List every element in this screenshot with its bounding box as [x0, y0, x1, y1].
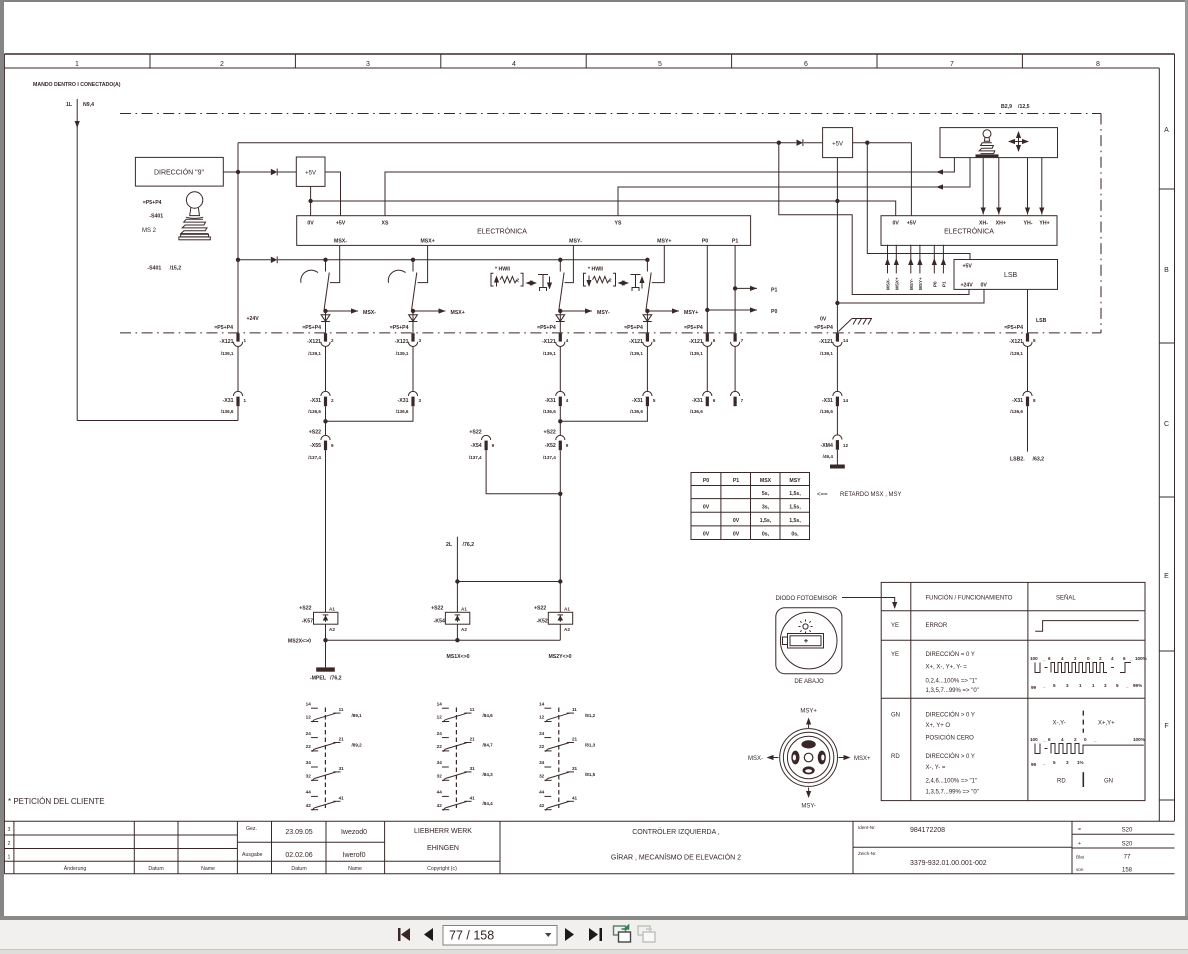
svg-text:12: 12: [306, 715, 312, 720]
pin labels top of left electronica: [307, 221, 622, 227]
wire X31-8 LSB2 out: [1010, 406, 1044, 462]
wire 1L direction arrow: [75, 121, 80, 128]
svg-text:MSY: MSY: [789, 478, 801, 484]
diode on MSY- to X121: [556, 311, 565, 333]
relay coil K57: [299, 606, 338, 633]
wire diode to right +5V box: [804, 142, 823, 144]
svg-text:-X31: -X31: [310, 398, 321, 404]
connector X121 pin 6: [684, 325, 716, 356]
svg-text:9: 9: [331, 443, 334, 448]
ruler column ticks: [150, 54, 1022, 68]
svg-text:34: 34: [306, 760, 312, 765]
svg-text:6: 6: [713, 338, 716, 343]
wire 0V rail long to right electronics: [311, 201, 896, 216]
svg-text:A2: A2: [461, 627, 467, 632]
wire P0 down from electronica: [706, 245, 708, 333]
svg-text:=P5+P4: =P5+P4: [143, 200, 162, 206]
svg-text:1,5s,: 1,5s,: [760, 518, 772, 524]
toolbar page combo box: [443, 926, 557, 946]
dash-dot boundary top: [120, 113, 1101, 115]
svg-text:=P5+P4: =P5+P4: [390, 325, 409, 331]
funcion/senal header: [926, 595, 1077, 602]
svg-text:Name: Name: [348, 866, 362, 872]
svg-text:YH-: YH-: [1024, 221, 1033, 227]
connector X31 pin 7: [731, 391, 744, 406]
connector X54 pin 9: [469, 430, 495, 461]
svg-text:-X121: -X121: [220, 339, 234, 345]
connector pad south: [803, 766, 815, 774]
title block sheet table labels: [1076, 827, 1085, 872]
contact K54 24-21-22: [437, 731, 493, 752]
svg-text:7: 7: [741, 398, 744, 403]
svg-text:Änderung: Änderung: [64, 865, 87, 872]
title block outer and row lines: [4, 821, 1174, 874]
svg-text:984172208: 984172208: [910, 827, 945, 834]
svg-text:1,5s,: 1,5s,: [789, 491, 801, 497]
svg-text:0: 0: [1084, 737, 1087, 742]
svg-text:CONTRÓLER IZQUIERDA ,: CONTRÓLER IZQUIERDA ,: [632, 827, 720, 836]
node 0V rail junction: [835, 199, 839, 203]
row letters A B C E F: [1164, 127, 1169, 730]
wire top feed y142.7: [238, 142, 796, 144]
svg-text:A2: A2: [329, 627, 335, 632]
svg-text:A1: A1: [564, 607, 570, 612]
svg-text:/76,2: /76,2: [330, 676, 342, 682]
svg-text:XS: XS: [382, 221, 389, 227]
wire YS up-over to right: [618, 158, 970, 216]
svg-text:/49,4: /49,4: [823, 454, 834, 459]
svg-text:XH+: XH+: [996, 221, 1006, 227]
svg-text:100%: 100%: [1135, 656, 1147, 661]
svg-text:21: 21: [572, 737, 578, 742]
row GN text: [891, 712, 975, 742]
svg-text:_: _: [1129, 656, 1133, 661]
arrow MSY- signal: [560, 308, 610, 316]
sheet frame left border: [3, 54, 5, 874]
svg-text:2: 2: [331, 338, 334, 343]
arrow P1 signal: [735, 286, 777, 294]
right row-letter strip lines: [1159, 54, 1174, 821]
svg-text:ELECTRÓNICA: ELECTRÓNICA: [477, 227, 527, 236]
toolbar last page button: [589, 928, 602, 941]
arrow on YS wire: [936, 184, 943, 189]
svg-text:2: 2: [1074, 737, 1077, 742]
diode V3 before right +5V box: [797, 139, 803, 146]
toolbar next view icon (disabled): [638, 926, 655, 942]
wire K57 A2 to rail: [325, 624, 327, 640]
svg-text:+: +: [1078, 841, 1081, 847]
svg-text:6: 6: [1048, 656, 1051, 661]
contact link line K54: [455, 708, 457, 809]
svg-text:12: 12: [437, 715, 443, 720]
ground 0V chassis at X121-14: [820, 317, 872, 332]
svg-text:0V: 0V: [733, 532, 740, 538]
diode V2 on switch rail: [271, 256, 277, 263]
svg-text:100: 100: [1030, 656, 1038, 661]
switch S-MSY-: [559, 245, 574, 310]
contact link line K52: [558, 708, 560, 809]
contact K57 24-21-22: [306, 731, 362, 752]
svg-text:X-,Y-: X-,Y-: [1053, 721, 1066, 727]
label diodo fotoemisor with pointer: [776, 596, 898, 609]
svg-text:Ausgabe: Ausgabe: [242, 852, 263, 858]
svg-text:Ident-Nr.: Ident-Nr.: [858, 825, 876, 830]
svg-text:MSY+: MSY+: [800, 709, 817, 715]
svg-text:41: 41: [572, 795, 578, 800]
node MSX+ out: [411, 309, 415, 313]
node rail-MSY+: [645, 258, 649, 262]
connector X31 pin 6: [690, 391, 716, 414]
connector pad west: [791, 751, 799, 765]
node X54/X52 tie: [558, 492, 562, 496]
svg-text:/139,1: /139,1: [630, 351, 643, 356]
connector pad east: [818, 751, 826, 765]
svg-text:DE ABAJO: DE ABAJO: [794, 679, 824, 685]
svg-text:DIRECCIÓN = 0 Y: DIRECCIÓN = 0 Y: [926, 651, 975, 658]
wire X31-14 to XM4: [836, 406, 838, 434]
svg-text:_: _: [1042, 737, 1046, 742]
svg-text:4: 4: [1061, 737, 1064, 742]
connector X31 pin 5: [630, 391, 656, 414]
svg-text:99: 99: [1031, 762, 1037, 767]
svg-text:Iwezod0: Iwezod0: [341, 829, 367, 836]
svg-text:Zeich-Nr.: Zeich-Nr.: [858, 851, 877, 856]
svg-text:5: 5: [653, 338, 656, 343]
wire X121-14 to X31-14: [836, 346, 838, 391]
node P1 branch: [733, 286, 737, 290]
svg-text:ERROR: ERROR: [926, 623, 948, 629]
wire X31-1 down to corner: [237, 406, 239, 420]
svg-text:A1: A1: [329, 607, 335, 612]
svg-text:N9,4: N9,4: [83, 102, 94, 108]
contact K54 14-11-12: [437, 701, 493, 722]
svg-text:_: _: [1042, 760, 1046, 765]
relay coil K54: [431, 606, 470, 633]
svg-text:-X31: -X31: [692, 398, 703, 404]
svg-text:34: 34: [437, 760, 443, 765]
svg-text:4: 4: [566, 338, 569, 343]
svg-text:/76,2: /76,2: [463, 542, 475, 548]
connector X31 pin 8: [1010, 391, 1036, 414]
svg-text:-X121: -X121: [819, 339, 833, 345]
arrow MSX+ signal: [413, 308, 465, 316]
svg-text:Copyright (c): Copyright (c): [427, 866, 457, 872]
svg-text:/137,4: /137,4: [469, 455, 482, 460]
svg-text:MSX+: MSX+: [894, 277, 899, 290]
svg-text:5: 5: [1116, 683, 1119, 688]
svg-text:22: 22: [437, 744, 443, 749]
svg-text:DIRECCIÓN > 0 Y: DIRECCIÓN > 0 Y: [926, 712, 975, 719]
svg-text:P0: P0: [771, 309, 777, 315]
svg-text:-MPEL: -MPEL: [310, 676, 327, 682]
svg-text:02.02.06: 02.02.06: [285, 852, 312, 859]
svg-text:11: 11: [339, 707, 344, 712]
wire YH+ arrow: [1039, 158, 1044, 215]
title block company name: [414, 828, 472, 852]
node 0V junction at +5V box: [308, 199, 312, 203]
svg-text:24: 24: [437, 731, 443, 736]
svg-text:42: 42: [306, 803, 312, 808]
svg-text:MSX+: MSX+: [451, 310, 465, 316]
svg-text:/84,6: /84,6: [483, 713, 494, 718]
contact K52 34-31-32: [539, 760, 596, 781]
table retardo grid: [691, 473, 810, 540]
svg-text:_: _: [1125, 683, 1129, 688]
svg-text:11: 11: [470, 707, 475, 712]
svg-text:9: 9: [566, 443, 569, 448]
svg-text:MANDO DENTRO I CONECTADO(A): MANDO DENTRO I CONECTADO(A): [33, 82, 121, 88]
svg-text:2: 2: [1099, 656, 1102, 661]
svg-text:9: 9: [492, 443, 495, 448]
svg-text:=P5+P4: =P5+P4: [814, 325, 833, 331]
svg-text:MSY-: MSY-: [909, 278, 914, 290]
svg-text:/136,6: /136,6: [308, 409, 321, 414]
svg-text:P1: P1: [733, 478, 739, 484]
contact K54 34-31-32: [437, 760, 493, 781]
wire XS up-over to right: [385, 158, 954, 216]
arrow MSY- south: [801, 788, 815, 810]
wire X31-4 + X31-5 tie: [560, 406, 647, 435]
svg-text:* HWII: * HWII: [588, 267, 604, 273]
wire X31-2 + X31-3 tie: [326, 406, 414, 435]
connector X121 pin 1: [214, 325, 246, 356]
wire K54 A2 to rail: [456, 624, 458, 640]
node MSY+ out: [645, 309, 649, 313]
svg-text:P1: P1: [941, 281, 946, 287]
wire XH- arrow into right electronica: [981, 158, 986, 215]
ruler band bottom line: [4, 67, 1159, 69]
switch S-MSX-: [301, 245, 340, 310]
svg-text:=P5+P4: =P5+P4: [624, 325, 643, 331]
wire XH+ arrow: [996, 158, 1001, 215]
svg-text:Gez.: Gez.: [246, 826, 257, 832]
signal gn/rd region labels: [1053, 711, 1116, 733]
svg-text:/81,5: /81,5: [585, 772, 596, 777]
svg-text:S20: S20: [1122, 828, 1133, 834]
svg-text:/81,2: /81,2: [585, 713, 596, 718]
svg-text:2: 2: [220, 61, 224, 68]
svg-text:MSY-: MSY-: [597, 310, 610, 316]
row RD text: [891, 753, 979, 796]
svg-text:P1: P1: [732, 239, 738, 245]
svg-text:B2,9: B2,9: [1001, 104, 1012, 110]
label -S401: [149, 214, 163, 220]
node 0V branch to LSB: [835, 301, 839, 305]
svg-text:/139,1: /139,1: [690, 351, 703, 356]
svg-text:21: 21: [470, 737, 476, 742]
contact K54 44-41-42: [437, 790, 493, 811]
svg-text:0,2,4...100% => "1": 0,2,4...100% => "1": [926, 678, 978, 684]
svg-text:Datum: Datum: [291, 866, 306, 872]
svg-text:+5V: +5V: [305, 171, 316, 177]
toolbar next page button: [565, 928, 574, 941]
svg-text:/136,6: /136,6: [1010, 409, 1023, 414]
svg-text:41: 41: [339, 795, 345, 800]
svg-text:POSICIÓN CERO: POSICIÓN CERO: [926, 734, 975, 741]
connector X121 pin 2: [302, 325, 334, 356]
double arrow 2: [618, 280, 630, 285]
svg-text:/89,1: /89,1: [352, 713, 363, 718]
node MSY- out: [558, 309, 562, 313]
svg-text:Iwerof0: Iwerof0: [343, 852, 366, 859]
arrow MSY+ signal: [647, 308, 698, 316]
node rail-MSX+: [411, 258, 415, 262]
title block drawing titles: [611, 827, 741, 862]
wire X121-2 to X31-2: [325, 346, 327, 391]
svg-text:/84,3: /84,3: [483, 772, 494, 777]
svg-text:LSB: LSB: [1004, 272, 1018, 279]
svg-text:11: 11: [572, 707, 577, 712]
svg-text:P0: P0: [932, 281, 937, 287]
svg-text:99: 99: [1031, 685, 1037, 690]
diode viewport circle: [780, 612, 837, 669]
connector X121 pin 7: [731, 333, 744, 346]
svg-text:/139,1: /139,1: [543, 351, 556, 356]
svg-text:/136,6: /136,6: [221, 409, 234, 414]
joystick MS2 symbol: [179, 192, 210, 240]
connector X31 pin 2: [308, 391, 334, 414]
box DIRECCION 9: [135, 157, 223, 186]
arrow MSY+ north: [800, 709, 817, 729]
svg-text:/136,6: /136,6: [630, 409, 643, 414]
arrow P0 signal: [707, 307, 777, 315]
signal gn/rd top labels: [1030, 737, 1145, 742]
svg-text:44: 44: [306, 790, 312, 795]
svg-text:7: 7: [741, 338, 744, 343]
svg-text:MS1X<>0: MS1X<>0: [446, 654, 469, 660]
plunger symbol 2 with up arrow: [631, 275, 645, 292]
HWII spring symbol 1: [491, 273, 523, 286]
svg-text:158: 158: [1122, 868, 1133, 874]
svg-text:42: 42: [539, 803, 545, 808]
svg-text:GÍRAR , MECANÍSMO DE ELEVACIÓN: GÍRAR , MECANÍSMO DE ELEVACIÓN 2: [611, 853, 741, 862]
svg-text:6: 6: [713, 398, 716, 403]
svg-text:+S22: +S22: [431, 606, 443, 612]
svg-text:RD: RD: [1057, 779, 1066, 785]
title block dates: [285, 829, 312, 859]
svg-text:=P5+P4: =P5+P4: [302, 325, 321, 331]
four-way arrow pictogram: [1008, 131, 1029, 152]
connector center hole: [804, 753, 813, 762]
svg-text:14: 14: [843, 338, 849, 343]
diode on MSX+ to X121: [409, 311, 418, 333]
svg-text:+S22: +S22: [534, 606, 546, 612]
relay coil K52: [534, 606, 573, 633]
svg-text:S20: S20: [1122, 842, 1133, 848]
svg-text:-XM4: -XM4: [820, 443, 833, 449]
svg-text:-X121: -X121: [689, 339, 703, 345]
connector X121 pin 8: [1004, 325, 1036, 356]
svg-text:<==: <==: [817, 492, 828, 498]
label de abajo: [794, 679, 824, 685]
double arrow 1: [526, 280, 538, 285]
LED sun symbol: [799, 620, 813, 634]
svg-text:24: 24: [539, 731, 545, 736]
table retardo row 2: [703, 505, 802, 511]
wire X121-4 to X31-4: [559, 346, 561, 391]
svg-text:0s,: 0s,: [762, 532, 770, 538]
svg-text:YE: YE: [891, 623, 899, 629]
svg-text:=P5+P4: =P5+P4: [1004, 325, 1023, 331]
node rail-MSX-: [323, 258, 327, 262]
svg-text:+S22: +S22: [309, 430, 321, 436]
wire 1L to X31 pin 1 bottom: [77, 420, 238, 422]
svg-text:1,5s,: 1,5s,: [789, 518, 801, 524]
label +24V: [247, 316, 260, 322]
svg-text:-S401: -S401: [147, 266, 161, 272]
title block column lines: [14, 821, 1072, 874]
svg-text:P1: P1: [771, 287, 777, 293]
node bus/switchrail junction: [236, 258, 240, 262]
svg-text:MSX-: MSX-: [886, 278, 891, 290]
wire X121-3 to X31-3: [412, 346, 414, 391]
row YE error: [891, 623, 948, 629]
label LSB net: [1036, 318, 1047, 324]
table retardo row 4: [703, 532, 799, 538]
svg-text:_: _: [1093, 737, 1097, 742]
svg-text:LSB: LSB: [1036, 318, 1047, 324]
box LSB: [954, 260, 1058, 290]
svg-text:MSY+: MSY+: [684, 310, 698, 316]
box ELECTRONICA right: [881, 216, 1057, 246]
node MSX- out: [323, 309, 327, 313]
svg-text:MS2Y<>0: MS2Y<>0: [548, 654, 571, 660]
svg-text:* PETICIÓN DEL CLIENTE: * PETICIÓN DEL CLIENTE: [8, 797, 105, 806]
connector X121 pin 4: [537, 325, 569, 356]
label net N9,4: [83, 102, 94, 108]
svg-text:14: 14: [539, 701, 545, 706]
svg-text:1,3,5,7...99% => "0": 1,3,5,7...99% => "0": [926, 688, 979, 694]
connector X31 pin 4: [543, 391, 569, 414]
svg-text:2: 2: [8, 841, 11, 847]
ruler band top line: [4, 53, 1174, 55]
wire X54 jog to X52 net: [486, 450, 560, 494]
dash-dot boundary right: [1100, 114, 1102, 333]
table retardo header: [703, 478, 801, 484]
connector X55 pin 9: [308, 430, 334, 461]
svg-text:14: 14: [843, 398, 849, 403]
svg-text:0V: 0V: [893, 221, 900, 227]
svg-text:=P5+P4: =P5+P4: [214, 325, 233, 331]
svg-text:/81,3: /81,3: [585, 742, 596, 747]
table retardo row 1: [762, 491, 801, 497]
svg-text:A: A: [1164, 127, 1169, 134]
svg-text:/84,4: /84,4: [483, 801, 494, 806]
svg-text:-X121: -X121: [1009, 339, 1023, 345]
wire 2L tie to X52 net: [457, 581, 560, 583]
LED body seen from below: [783, 634, 824, 649]
connector X121 pin 5: [624, 325, 656, 356]
svg-text:-X121: -X121: [307, 339, 321, 345]
diode viewport rounded box: [776, 608, 842, 674]
stub arrow MSY+: [917, 245, 923, 290]
svg-text:MSX-: MSX-: [748, 756, 763, 762]
svg-text:MSX-: MSX-: [334, 239, 347, 245]
stub arrow MSX- into right electronica: [885, 245, 891, 290]
svg-text:44: 44: [437, 790, 443, 795]
svg-text:A1: A1: [461, 607, 467, 612]
contact K52 24-21-22: [539, 731, 596, 752]
svg-text:/139,1: /139,1: [221, 351, 234, 356]
svg-text:-X31: -X31: [398, 398, 409, 404]
pin labels bottom of left electronica: [334, 239, 738, 245]
wire YH- arrow: [1025, 158, 1030, 215]
svg-text:14: 14: [306, 701, 312, 706]
node P0 branch: [705, 308, 709, 312]
table retardo row 3: [733, 518, 802, 524]
svg-text:MSY+: MSY+: [918, 277, 923, 290]
svg-text:MSX+: MSX+: [854, 756, 871, 762]
